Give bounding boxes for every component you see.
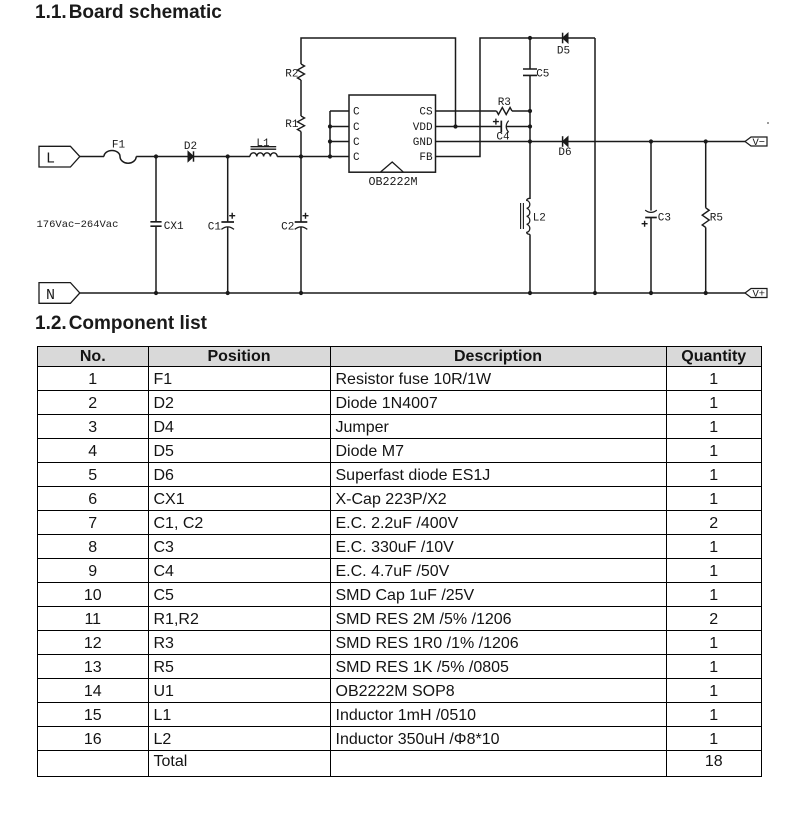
node C3 bottom: [649, 291, 653, 295]
wire GND to V-: [436, 141, 746, 143]
node C2 bottom: [299, 291, 303, 295]
node R5 bottom: [704, 291, 708, 295]
connector N: [39, 283, 80, 305]
resistor R2: [285, 64, 304, 80]
svg-text:CX1: CX1: [164, 221, 184, 233]
svg-text:L2: L2: [533, 212, 546, 224]
wire L1 to U1: [277, 156, 349, 158]
connector V+: [745, 289, 767, 301]
IC U1 OB2222M: [349, 95, 436, 189]
node GND/C5: [528, 139, 532, 143]
wire FB up and across: [436, 38, 596, 157]
inductor L1: [250, 138, 277, 157]
node C5 top: [528, 36, 532, 40]
svg-text:C: C: [353, 152, 360, 164]
svg-text:176Vac−264Vac: 176Vac−264Vac: [37, 219, 119, 231]
svg-text:D5: D5: [557, 45, 570, 57]
wire CS to R3: [436, 110, 497, 112]
svg-text:L1: L1: [256, 138, 270, 150]
wire F1 to D2: [136, 156, 188, 158]
connector L: [39, 146, 80, 167]
node at CX1: [154, 154, 158, 158]
wire R2 top to VDD drop: [301, 38, 456, 127]
svg-text:R5: R5: [710, 212, 723, 224]
wire R3 to node: [512, 110, 530, 112]
wire L to F1: [80, 156, 104, 158]
svg-text:N: N: [46, 287, 55, 304]
svg-text:FB: FB: [419, 152, 433, 164]
svg-text:L: L: [46, 151, 55, 168]
capacitor C2: [281, 157, 308, 294]
inductor L2: [521, 198, 546, 293]
svg-text:R3: R3: [498, 97, 511, 109]
svg-text:F1: F1: [112, 139, 126, 151]
node C1 bottom: [226, 291, 230, 295]
bottom rail N to V+: [80, 292, 745, 294]
capacitor CX1: [150, 157, 184, 294]
node C4/C5: [528, 124, 532, 128]
svg-text:C1: C1: [208, 221, 222, 233]
wire D2 to L1: [194, 156, 251, 158]
resistor R3: [497, 97, 513, 115]
node R5 top: [704, 139, 708, 143]
svg-text:V−: V−: [752, 137, 765, 149]
pin bus left: [328, 111, 349, 159]
node L2 bottom: [528, 291, 532, 295]
diode D2: [184, 141, 197, 162]
node CX1 bottom: [154, 291, 158, 295]
svg-text:D2: D2: [184, 141, 197, 153]
wire R1 bottom: [300, 132, 302, 157]
svg-text:C: C: [353, 122, 360, 134]
svg-text:C3: C3: [658, 212, 671, 224]
resistor R1: [285, 116, 304, 132]
svg-text:C: C: [353, 137, 360, 149]
connector V-: [745, 137, 767, 149]
node at C1: [226, 154, 230, 158]
capacitor C3: [642, 142, 671, 294]
svg-text:V+: V+: [752, 289, 765, 301]
wire right drop to V+ rail: [594, 38, 596, 293]
node R3/C5: [528, 109, 532, 113]
svg-text:R2: R2: [285, 68, 298, 80]
node at R1/C2: [299, 154, 303, 158]
svg-text:C: C: [353, 107, 360, 119]
resistor R5: [702, 142, 723, 294]
fuse F1: [104, 151, 136, 164]
capacitor C5: [523, 38, 549, 199]
svg-text:GND: GND: [413, 137, 433, 149]
speck: [767, 122, 769, 124]
node C3 top: [649, 139, 653, 143]
node VDD drop: [453, 124, 457, 128]
svg-text:VDD: VDD: [413, 122, 433, 134]
diode D6: [558, 136, 571, 159]
svg-text:C5: C5: [536, 69, 549, 81]
svg-text:CS: CS: [419, 107, 433, 119]
wire R1 to R2: [300, 80, 302, 116]
svg-text:R1: R1: [285, 119, 299, 131]
capacitor C1: [208, 157, 235, 294]
svg-text:D6: D6: [558, 147, 571, 159]
wire VDD to C4: [436, 126, 502, 128]
svg-text:C2: C2: [281, 221, 294, 233]
svg-text:OB2222M: OB2222M: [368, 175, 417, 189]
node right drop bottom: [593, 291, 597, 295]
diode D5: [557, 33, 570, 58]
capacitor C4: [493, 119, 530, 144]
